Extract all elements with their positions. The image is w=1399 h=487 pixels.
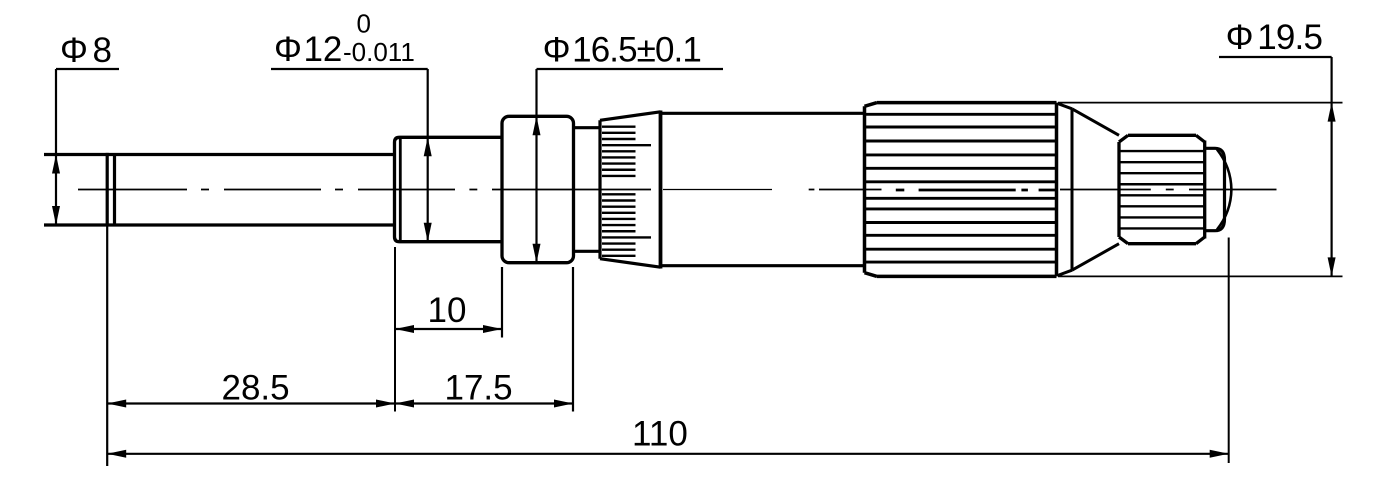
svg-text:Φ8: Φ8: [60, 31, 112, 70]
ratchet knob outline with chamfered corners: [1119, 135, 1205, 243]
sleeve (barrel tube) top and bottom edges: [662, 113, 865, 265]
arrowheads: [52, 103, 1336, 458]
step section chamfer line: [399, 138, 402, 241]
110 dimension arrows: [107, 450, 126, 458]
Phi8 arrows: [52, 155, 60, 174]
collar (Phi 16.5) rounded rectangle: [502, 116, 574, 262]
28.5 dimension arrows: [107, 400, 126, 408]
extension lines for Phi 19.5: [1058, 103, 1343, 277]
spindle end face line: [106, 153, 109, 227]
extension line at collar right x=573: [572, 267, 574, 412]
dimension line 17.5 and 28.5: [107, 402, 573, 404]
svg-text:28.5: 28.5: [222, 368, 290, 407]
Phi12 arrows: [424, 137, 432, 156]
extension line at spindle face x=107: [106, 226, 108, 466]
dimension Phi 16.5: leader and dimension line: [537, 69, 724, 263]
centerline (dash-dot axis): [78, 189, 1277, 192]
extension line at cap right x=1228.7: [1228, 238, 1230, 464]
extension line at collar left x=502: [501, 267, 503, 338]
end cap body: [1205, 148, 1225, 230]
svg-text:0: 0: [357, 9, 371, 39]
dimension line 10: [395, 328, 502, 330]
10 dimension arrows: [395, 325, 414, 333]
dimension Phi 8: leader, dimension line: [56, 69, 119, 225]
dimension Phi 19.5: leader and dimension line: [1219, 57, 1332, 276]
ring between collar and thimble: [574, 128, 601, 252]
end cap dome silhouette: [1217, 150, 1231, 230]
step section (Phi 12) outline with rounded left corners: [395, 137, 503, 241]
Phi19.5 arrows: [1328, 103, 1336, 122]
17.5 dimension arrows: [395, 400, 414, 408]
svg-text:10: 10: [428, 291, 467, 330]
svg-text:Φ16.5±0.1: Φ16.5±0.1: [543, 31, 701, 70]
svg-text:110: 110: [632, 415, 688, 454]
dimension Phi 12: leader and dimension line: [271, 69, 428, 242]
thimble bevel right edge: [659, 111, 663, 269]
Phi16.5 arrows: [533, 116, 541, 135]
extension line at step face x=395: [394, 247, 396, 412]
knob knurl lines: [1121, 151, 1204, 228]
svg-text:17.5: 17.5: [445, 368, 513, 407]
dimension line 110: [107, 453, 1229, 455]
svg-text:Φ12: Φ12: [274, 30, 342, 69]
svg-text:-0.011: -0.011: [343, 37, 415, 67]
svg-text:Φ19.5: Φ19.5: [1226, 18, 1323, 57]
spindle tip line: [113, 153, 116, 226]
thimble bevel cone outline: [600, 112, 661, 267]
taper section behind barrel: [1058, 104, 1120, 276]
barrel knurl lines: [866, 114, 1055, 262]
spindle body (Phi 8) top and bottom edges with left extension: [44, 155, 395, 226]
knurled barrel (Phi 19.5) outline with chamfered corners: [865, 103, 1057, 277]
thimble graduation ticks: [602, 127, 651, 256]
